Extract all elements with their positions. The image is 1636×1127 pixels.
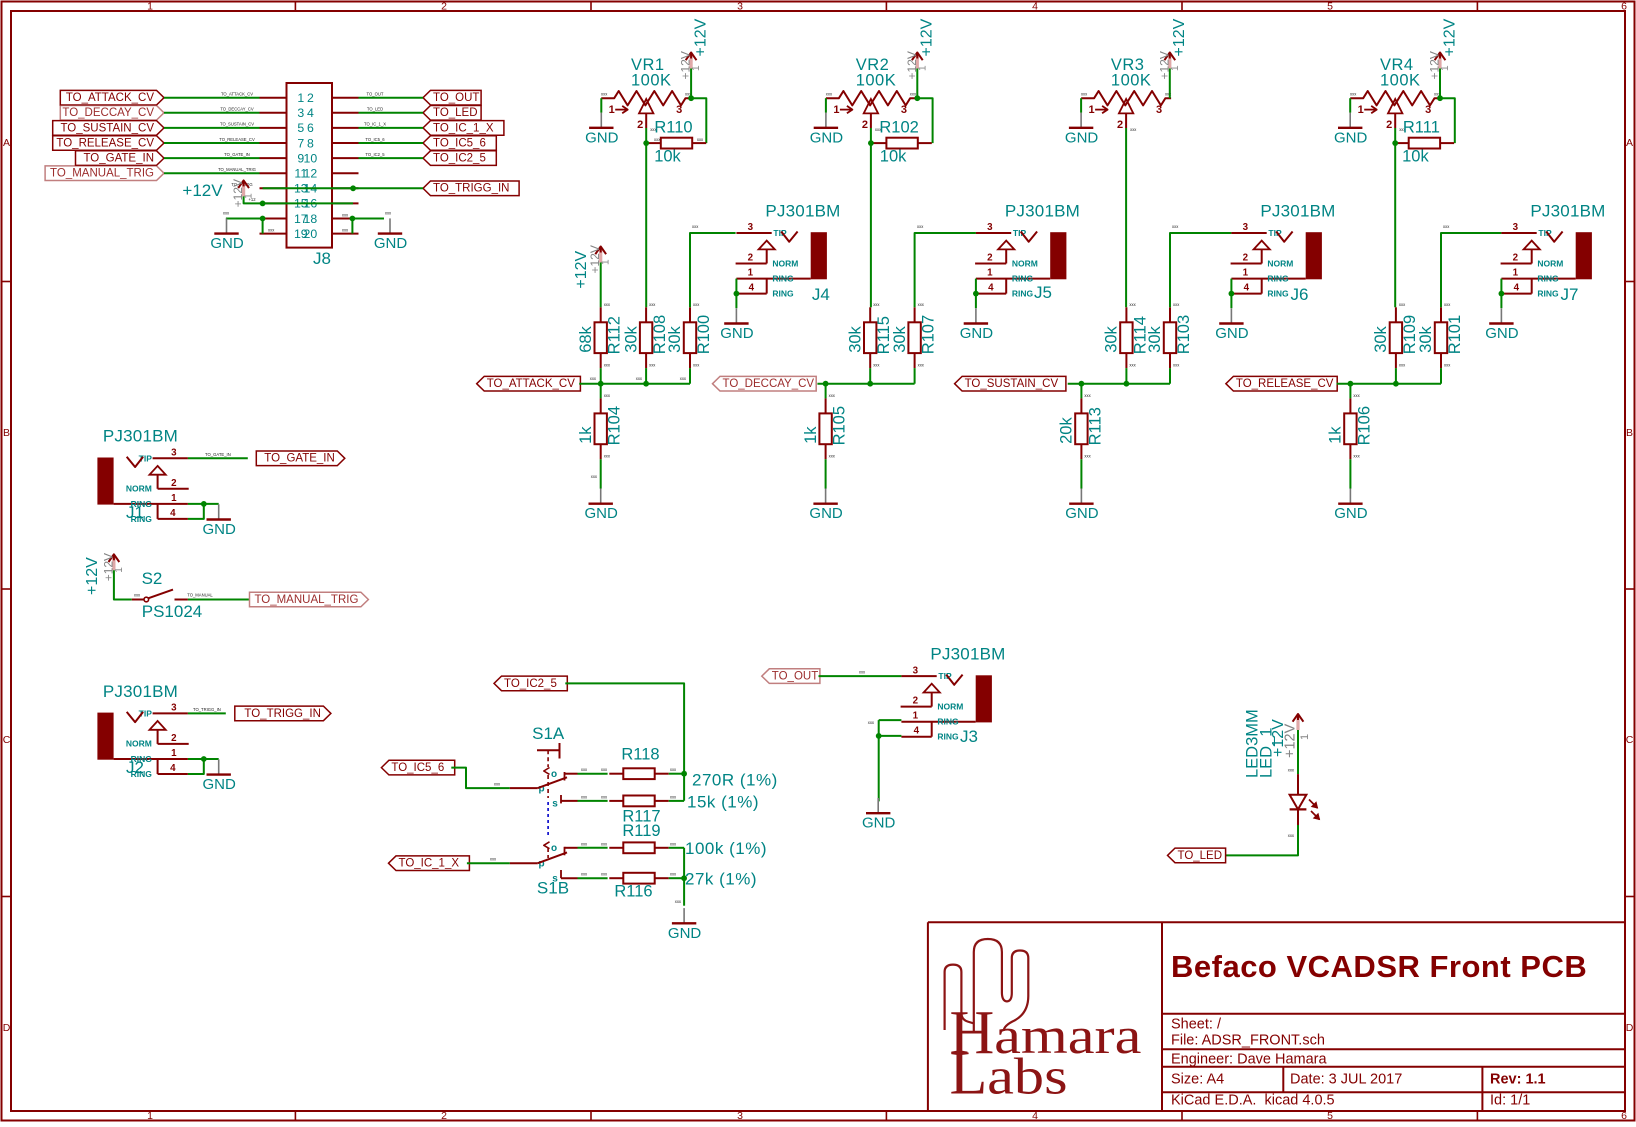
svg-text:1: 1 [601,259,612,265]
net label TO_IC2_5 [423,151,496,166]
svg-text:TO_SUSTAIN_CV: TO_SUSTAIN_CV [220,122,254,127]
svg-text:xxx: xxx [873,302,880,307]
svg-text:2: 2 [748,253,754,264]
svg-text:xxx: xxx [581,794,588,799]
resistor R113 [1058,393,1105,459]
wire [825,384,827,399]
svg-text:TO_GATE_IN: TO_GATE_IN [205,452,231,457]
junction [1392,140,1398,146]
svg-text:xxx: xxx [601,794,608,799]
wire [1169,69,1171,99]
net label TO_IC5_6 [423,136,496,151]
wire [263,187,423,189]
svg-text:5: 5 [1327,1110,1333,1122]
svg-text:PJ301BM: PJ301BM [1530,201,1605,220]
svg-text:2: 2 [987,253,993,264]
jack J7 pin 1 (RING) [1501,278,1575,280]
svg-text:xxx: xxx [1353,453,1360,458]
svg-text:TO_OUT: TO_OUT [367,92,384,97]
svg-text:+12V: +12V [84,557,101,595]
svg-text:TO_IC5_6: TO_IC5_6 [391,762,444,774]
jack J1 sleeve [97,458,113,505]
net label TO_MANUAL_TRIG [45,166,164,181]
svg-text:TO_LED: TO_LED [1178,850,1223,862]
svg-text:xxx: xxx [385,211,392,216]
jack J5 pin 3 (TIP) [976,232,1011,234]
svg-text:2: 2 [1117,119,1123,131]
svg-text:C: C [3,734,11,746]
svg-text:PS1024: PS1024 [142,602,203,621]
junction [914,95,920,101]
power +12V [84,553,125,595]
svg-text:2: 2 [913,696,919,707]
svg-text:GND: GND [203,776,237,793]
svg-text:3: 3 [987,222,993,233]
wire [1297,730,1299,774]
svg-text:R106: R106 [1355,406,1373,445]
jack J2 pin 1 (RING) [114,758,188,760]
wire [359,127,424,129]
svg-text:+12V: +12V [919,18,936,56]
svg-text:File: ADSR_FRONT.sch: File: ADSR_FRONT.sch [1171,1033,1325,1049]
svg-text:xxx: xxx [918,302,925,307]
wire [691,98,706,143]
svg-text:+12V: +12V [182,181,223,200]
jack J6 pin 4 (RING) [1231,293,1261,295]
switch link (dashed) [547,775,549,798]
svg-text:TO_IC5_6: TO_IC5_6 [433,137,486,149]
svg-text:1: 1 [917,65,928,71]
svg-text:xxx: xxx [1444,302,1451,307]
svg-text:30k: 30k [1372,325,1390,352]
svg-text:L: L [950,1040,988,1108]
jack J4 pin 2 (NORM) [736,263,767,265]
ground [810,113,844,147]
wire [359,97,424,99]
svg-text:KiCad E.D.A. kicad 4.0.5: KiCad E.D.A. kicad 4.0.5 [1171,1093,1335,1109]
svg-text:TO_TRIGG_IN: TO_TRIGG_IN [193,707,221,712]
ground [668,908,702,942]
wire [1068,383,1170,385]
ground [210,218,244,252]
svg-text:xxx: xxx [1084,393,1091,398]
junction [681,771,687,777]
wire [914,368,916,384]
svg-text:PJ301BM: PJ301BM [103,427,178,446]
wire [359,112,424,114]
svg-text:TO_ATTACK_CV: TO_ATTACK_CV [66,92,155,104]
svg-text:PJ301BM: PJ301BM [765,201,840,220]
svg-text:xxx: xxx [581,841,588,846]
svg-text:J3: J3 [960,727,978,746]
svg-text:5: 5 [1327,1,1333,13]
svg-text:GND: GND [960,325,994,342]
svg-text:3: 3 [297,106,304,120]
svg-text:GND: GND [720,325,754,342]
svg-text:xxx: xxx [604,453,611,458]
resistor R108 [622,302,669,368]
wire [1394,143,1396,307]
jack J5 (PJ301BM) [975,201,1080,302]
svg-text:xxx: xxx [601,767,608,772]
jack J1 pin 4 (RING) [158,518,188,520]
svg-text:xxx: xxx [268,227,275,232]
wire [226,218,263,220]
svg-text:3: 3 [676,104,682,116]
wire jack ring to ground [188,503,219,505]
net label TO_IC_1_X [423,121,504,136]
jack J1 pin 2 (NORM) [158,488,189,490]
wire [164,172,260,174]
svg-text:1: 1 [1513,268,1519,279]
junction [350,216,356,222]
svg-text:10k: 10k [1402,148,1429,166]
potentiometer VR2 [826,56,917,132]
svg-text:xxx: xxx [868,720,875,725]
wire [869,368,871,384]
svg-text:xxx: xxx [873,362,880,367]
jack J1 (PJ301BM) [97,427,188,524]
net label TO_IC_1_X [389,856,470,871]
jack J2 (PJ301BM) [97,682,188,779]
net label TO_SUSTAIN_CV [955,376,1066,391]
junction [868,140,874,146]
svg-text:4: 4 [170,508,176,519]
svg-text:RING: RING [772,289,794,299]
wire [645,128,647,143]
svg-text:xxx: xxx [636,376,643,381]
svg-text:xxx: xxx [649,302,656,307]
svg-text:1: 1 [833,104,839,116]
svg-text:3: 3 [1243,222,1249,233]
svg-text:C: C [1626,734,1634,746]
svg-text:xxx: xxx [1129,362,1136,367]
svg-text:GND: GND [1065,505,1099,522]
junction [973,291,979,297]
svg-text:xxx: xxx [1399,362,1406,367]
jack J6 pin 1 (RING) [1231,278,1305,280]
svg-text:18: 18 [304,212,318,226]
wire [1125,368,1127,384]
svg-text:xxx: xxx [1172,224,1179,229]
svg-text:xxx: xxx [1173,302,1180,307]
power +12V [1157,18,1188,79]
svg-text:PJ301BM: PJ301BM [103,682,178,701]
jack J1 pin 1 (RING) [114,503,188,505]
svg-text:LED_1: LED_1 [1257,728,1275,778]
svg-text:Engineer: Dave Hamara: Engineer: Dave Hamara [1171,1052,1327,1068]
wire [352,218,384,220]
svg-text:1: 1 [913,711,919,722]
ground [1334,113,1368,147]
svg-text:1: 1 [297,91,304,105]
svg-text:1: 1 [987,268,993,279]
svg-text:R111: R111 [1403,119,1440,137]
wire [817,383,914,385]
ground [960,308,994,342]
wire jack ring to ground [1230,279,1232,294]
wire [689,368,691,384]
svg-text:100K: 100K [1380,72,1421,90]
jack J4 pin 1 (RING) [736,278,810,280]
svg-text:xxx: xxx [675,899,682,904]
svg-text:10k: 10k [880,148,907,166]
jack J6 pin 2 (NORM) [1231,263,1262,265]
svg-text:RING: RING [1267,289,1289,299]
svg-text:1: 1 [1170,65,1181,71]
svg-text:100K: 100K [631,72,672,90]
wire [1169,368,1171,384]
svg-text:B: B [1626,427,1633,439]
svg-text:xxx: xxx [670,794,677,799]
wire jack ring to ground [879,719,902,721]
svg-text:xxx: xxx [134,593,141,598]
LED triangle [1290,795,1307,810]
svg-text:s: s [552,874,558,885]
jack J2 pin 3 (TIP) [153,712,188,714]
wire [825,98,827,112]
svg-text:xxx: xxx [1288,833,1295,838]
wire jack ring to ground [735,279,737,294]
wire [164,97,260,99]
svg-text:TO_GATE_IN: TO_GATE_IN [224,152,250,157]
jack J3 sleeve [976,675,992,722]
svg-text:3: 3 [737,1110,743,1122]
junction [598,381,604,387]
svg-text:GND: GND [1334,505,1368,522]
svg-text:GND: GND [1065,129,1099,146]
svg-text:GND: GND [585,129,619,146]
svg-text:4: 4 [988,283,994,294]
svg-text:xxx: xxx [917,224,924,229]
pot block B (decay) [713,18,976,522]
svg-text:NORM: NORM [1537,258,1563,268]
wire [1080,98,1082,112]
svg-text:xxx: xxx [829,453,836,458]
svg-text:GND: GND [862,815,896,832]
svg-text:xxx: xxx [601,841,608,846]
potentiometer VR1 [601,56,692,132]
wire [600,263,602,308]
svg-text:GND: GND [585,505,619,522]
svg-text:15k (1%): 15k (1%) [687,793,759,812]
wire [683,848,685,906]
wire [1395,368,1397,384]
svg-text:GND: GND [203,521,237,538]
svg-text:R110: R110 [654,119,692,137]
svg-text:4: 4 [749,283,755,294]
jack J3 pin 2 (NORM) [901,706,932,708]
svg-text:xxx: xxx [692,224,699,229]
svg-text:R102: R102 [879,119,918,137]
svg-text:1: 1 [171,748,177,759]
resistor R100 [666,302,713,368]
ground [862,798,896,832]
wire [1224,825,1298,855]
svg-text:4: 4 [1244,283,1250,294]
net label TO_TRIGG_IN [235,706,331,721]
svg-text:xxx: xxx [670,841,677,846]
switch S1A [510,724,578,810]
junction [260,201,266,207]
svg-text:xxx: xxx [1399,302,1406,307]
ground [585,489,619,523]
connector J8 [260,83,359,268]
svg-text:GND: GND [810,129,844,146]
jack J2 pin 2 (NORM) [158,743,189,745]
svg-text:4: 4 [307,106,314,120]
jack J1 pin 3 (TIP) [153,457,188,459]
power +12V [679,18,710,79]
svg-text:TO_RELEASE_CV: TO_RELEASE_CV [219,137,255,142]
wire [244,196,353,203]
svg-text:1: 1 [748,268,754,279]
svg-text:TO_SUSTAIN_CV: TO_SUSTAIN_CV [60,122,154,134]
svg-text:xxx: xxx [1084,453,1091,458]
resistor R112 [577,302,624,368]
svg-text:1: 1 [171,493,177,504]
svg-text:+12: +12 [248,197,256,202]
junction [1348,381,1354,387]
svg-text:30k: 30k [891,325,909,352]
svg-text:2: 2 [441,1110,447,1122]
svg-text:10k: 10k [654,148,681,166]
svg-text:30k: 30k [1103,325,1121,352]
wire [114,570,132,599]
svg-text:3: 3 [171,448,177,459]
potentiometer VR4 [1350,56,1441,132]
wire [1337,383,1441,385]
power +12V [905,18,936,79]
wire [359,142,424,144]
resistor [609,842,668,853]
svg-text:TO_DECCAY_CV: TO_DECCAY_CV [723,378,815,390]
svg-text:1: 1 [609,104,615,116]
svg-text:20k: 20k [1058,417,1076,444]
jack J4 pin 3 (TIP) [736,232,771,234]
ground [1065,113,1099,147]
svg-text:xxx: xxx [581,767,588,772]
svg-text:RING: RING [1537,289,1559,299]
svg-text:TO_IC_1_X: TO_IC_1_X [433,122,494,134]
junction [643,381,649,387]
wire [690,69,692,99]
svg-text:TO_MANUAL: TO_MANUAL [187,593,213,598]
svg-text:3: 3 [171,703,177,714]
svg-text:Rev: 1.1: Rev: 1.1 [1490,1072,1546,1088]
svg-text:J7: J7 [1561,285,1579,304]
svg-text:2: 2 [171,478,177,489]
resistor R111 [1395,119,1454,166]
svg-text:1: 1 [691,65,702,71]
svg-text:NORM: NORM [126,484,152,494]
svg-text:6: 6 [1621,1,1627,13]
wire [1440,98,1455,143]
svg-text:TO_TRIGG_IN: TO_TRIGG_IN [433,183,509,195]
svg-text:xxx: xxx [1165,92,1172,97]
svg-text:3: 3 [737,1,743,13]
net label TO_OUT [423,90,481,105]
junction [201,756,207,762]
wire [579,383,690,385]
svg-text:TO_DECCAY_CV: TO_DECCAY_CV [220,107,254,112]
svg-text:R101: R101 [1446,315,1464,354]
svg-text:NORM: NORM [772,258,798,268]
svg-text:xxx: xxx [601,872,608,877]
wire [578,847,608,849]
svg-text:R113: R113 [1086,407,1104,445]
wire [870,128,872,143]
svg-text:xxx: xxx [826,92,833,97]
Hamara Labs logo cactus [945,939,1029,1031]
jack J3 pin 4 (RING) [901,736,931,738]
svg-text:100K: 100K [856,72,897,90]
resistor R106 [1327,393,1374,459]
net label TO_TRIGG_IN [423,181,519,196]
wire [262,219,264,234]
wire [1080,459,1082,488]
wire [600,459,602,488]
svg-text:30k: 30k [1417,325,1435,352]
net label TO_LED [423,106,481,121]
net label TO_GATE_IN [76,151,165,166]
Hamara Labs logo text [950,999,1142,1108]
ground [809,489,843,523]
resistor [609,873,668,884]
svg-text:xxx: xxx [670,872,677,877]
net label TO_ATTACK_CV [477,376,581,391]
svg-text:TO_OUT: TO_OUT [433,92,479,104]
ground [374,218,408,252]
resistor R104 [577,393,624,459]
resistor [609,796,668,807]
net label TO_GATE_IN [256,451,345,466]
wire jack ring to ground [975,279,977,294]
junction [350,185,356,191]
svg-text:o: o [551,769,557,780]
wire [1440,368,1442,384]
svg-text:7: 7 [297,136,304,150]
svg-text:1: 1 [114,567,125,573]
wire [1439,69,1441,99]
resistor R101 [1417,302,1464,368]
svg-text:TO_LED: TO_LED [433,107,478,119]
svg-text:J6: J6 [1291,285,1309,304]
wire [690,233,736,307]
net label TO_SUSTAIN_CV [53,121,164,136]
svg-text:TO_MANUAL_TRIG: TO_MANUAL_TRIG [50,168,154,180]
wire [1170,233,1231,307]
svg-text:xxx: xxx [1350,92,1357,97]
svg-text:J4: J4 [812,285,830,304]
switch S1B [510,842,578,898]
svg-text:1: 1 [1358,104,1364,116]
jack J5 pin 2 (NORM) [975,263,1006,265]
svg-text:1: 1 [1243,268,1249,279]
svg-text:TO_GATE_IN: TO_GATE_IN [83,153,154,165]
svg-text:xxx: xxx [1443,224,1450,229]
svg-text:3: 3 [1425,104,1431,116]
wire [669,877,684,879]
wire [1441,233,1501,307]
jack J5 sleeve [1050,232,1066,279]
wire [917,98,932,143]
svg-text:RING: RING [937,732,959,742]
svg-text:10: 10 [304,151,318,165]
svg-text:1: 1 [1299,734,1311,740]
svg-text:xxx: xxx [649,362,656,367]
svg-text:s: s [552,799,558,810]
